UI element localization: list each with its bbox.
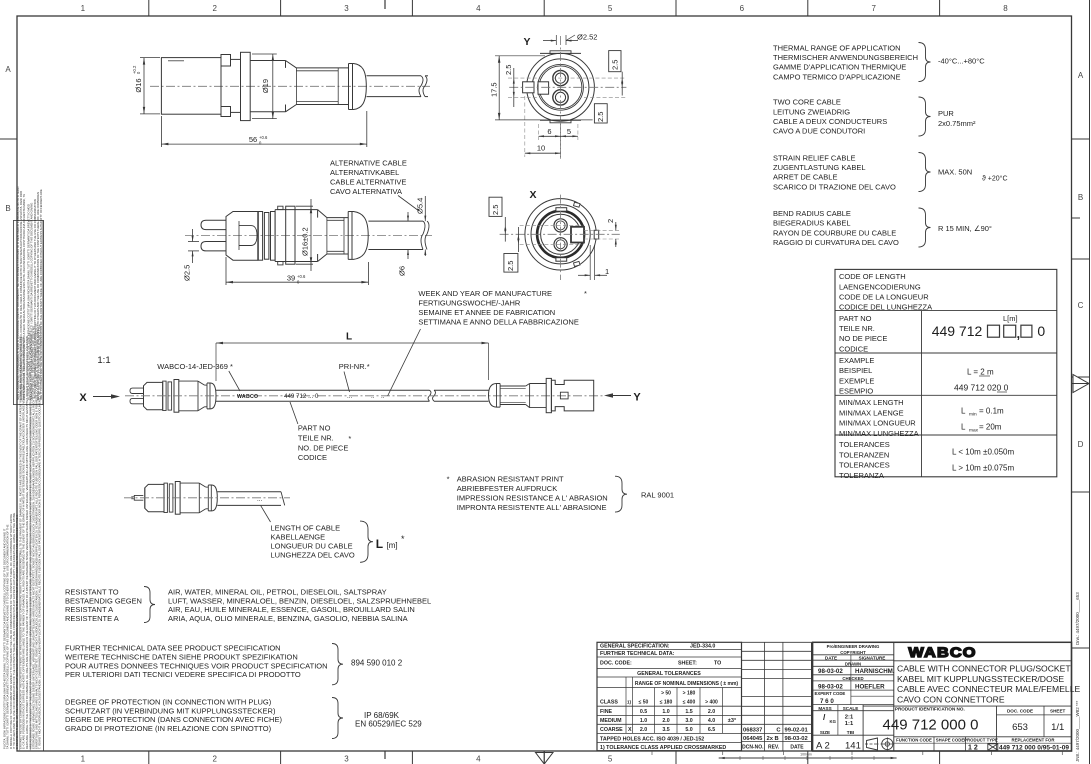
svg-text:*: * [584,289,587,298]
svg-text:STRAIN RELIEF CABLE: STRAIN RELIEF CABLE [773,153,856,162]
svg-text:ABRASION RESISTANT PRINT: ABRASION RESISTANT PRINT [457,475,564,484]
svg-text:B: B [1078,193,1083,202]
svg-text:≤ 400: ≤ 400 [683,700,696,706]
svg-text:*: * [348,434,351,443]
svg-text:RAL 9001: RAL 9001 [641,491,674,500]
svg-text:CABLE AVEC CONNECTEUR MALE/FEM: CABLE AVEC CONNECTEUR MALE/FEMELLE [897,684,1080,694]
svg-text:SCALE: SCALE [843,706,859,711]
svg-text:IMPRONTA RESISTENTE ALL' ABRAS: IMPRONTA RESISTENTE ALL' ABRASIONE [457,503,607,512]
svg-text:SEMAINE ET ANNEE DE FABRICATIO: SEMAINE ET ANNEE DE FABRICATION [418,308,555,317]
svg-text:TO: TO [714,661,721,667]
svg-text:2: 2 [212,755,217,764]
svg-text:WEITERE TECHNISCHE DATEN SIEHE: WEITERE TECHNISCHE DATEN SIEHE PRODUKT S… [65,653,298,662]
svg-text:TOLERANZEN: TOLERANZEN [839,450,889,459]
svg-text:2.5: 2.5 [611,60,620,70]
svg-text:CODICE: CODICE [298,453,327,462]
svg-text:894 590 010 2: 894 590 010 2 [351,659,403,668]
svg-text:98-03-02: 98-03-02 [818,668,843,675]
svg-text:JN8.: 4497/2000_____W82 ***: JN8.: 4497/2000_____W82 *** [1075,700,1080,762]
svg-text:Y: Y [523,36,530,48]
svg-text:2.5: 2.5 [491,205,500,215]
svg-text:C: C [1078,301,1084,310]
svg-text:LONGUEUR DU CABLE: LONGUEUR DU CABLE [271,542,353,551]
svg-text:CABLE A DEUX CONDUCTEURS: CABLE A DEUX CONDUCTEURS [773,117,887,126]
svg-text:PRODUCT TYPE: PRODUCT TYPE [964,737,998,742]
svg-text:MAX. 50N: MAX. 50N [938,168,972,177]
svg-text:TOLERANCES: TOLERANCES [839,440,890,449]
svg-text:THERMAL RANGE OF APPLICATION: THERMAL RANGE OF APPLICATION [773,43,901,52]
svg-text:≤ 50: ≤ 50 [639,700,649,706]
svg-text:= 20m: = 20m [979,423,1002,432]
svg-text:MEDIUM: MEDIUM [600,718,622,724]
svg-text:1) TOLERANCE CLASS APPLIED CRO: 1) TOLERANCE CLASS APPLIED CROSSMARKED [600,745,726,751]
svg-text:2.0: 2.0 [640,727,647,733]
svg-text:L: L [961,406,966,415]
svg-text:TEILE NR.: TEILE NR. [298,433,334,442]
svg-text:-40°C...+80°C: -40°C...+80°C [938,57,985,66]
svg-text:2.0: 2.0 [708,709,715,715]
svg-text:GRADO DI PROTEZIONE (IN RELAZI: GRADO DI PROTEZIONE (IN RELAZIONE CON SP… [65,724,272,733]
svg-text:SHAPE CODE: SHAPE CODE [936,737,965,742]
svg-text:0: 0 [1037,323,1045,339]
svg-text:RESISTENTE A: RESISTENTE A [65,614,119,623]
svg-text:8: 8 [1003,4,1008,13]
svg-text:LAENGENCODIERUNG: LAENGENCODIERUNG [839,282,921,291]
svg-text:RESISTANT A: RESISTANT A [65,605,113,614]
svg-text:*: * [447,475,450,484]
svg-text:5.0: 5.0 [685,727,692,733]
svg-text:1/1: 1/1 [1051,722,1064,733]
svg-text:98-03-02: 98-03-02 [818,683,843,690]
svg-text:1.0: 1.0 [640,718,647,724]
svg-text:Ø19: Ø19 [261,79,270,93]
svg-text:0.5: 0.5 [640,709,647,715]
svg-text:> 180: > 180 [683,691,696,697]
svg-text:ESEMPIO: ESEMPIO [839,387,873,396]
svg-text:EN 60529/IEC 529: EN 60529/IEC 529 [355,720,422,729]
svg-text:ARIA, AQUA, OLIO MINERALE, BEN: ARIA, AQUA, OLIO MINERALE, BENZINA, GASO… [168,614,408,623]
svg-text:RESISTANT TO: RESISTANT TO [65,588,119,597]
svg-text:..: .. [371,393,375,400]
svg-text:min: min [969,412,977,418]
svg-text:2:1: 2:1 [845,714,854,720]
svg-text:NO. DE PIECE: NO. DE PIECE [298,443,348,452]
svg-text:FURTHER TECHNICAL DATA SEE PRO: FURTHER TECHNICAL DATA SEE PRODUCT SPECI… [65,644,281,653]
svg-text:+0.6: +0.6 [297,274,306,279]
svg-text:RANGE OF NOMINAL DIMENSIONS (: RANGE OF NOMINAL DIMENSIONS ( ± mm) [635,681,739,687]
svg-text:CHECKED: CHECKED [842,676,863,681]
svg-text:449 712 020 0: 449 712 020 0 [954,382,1009,392]
svg-text:> 50: > 50 [661,691,671,697]
svg-text:SHEET: SHEET [1050,708,1066,713]
svg-text:SIZE: SIZE [820,730,830,735]
svg-text:MIN/MAX LONGUEUR: MIN/MAX LONGUEUR [839,419,916,428]
svg-text:449 712: 449 712 [932,323,983,339]
svg-text:2.0: 2.0 [662,718,669,724]
svg-text:SIGNATURE: SIGNATURE [859,655,886,660]
svg-text:Ø16: Ø16 [134,78,143,92]
svg-text:100mm: 100mm [800,753,812,757]
svg-text:56: 56 [249,135,257,144]
svg-text:99-02-01: 99-02-01 [785,728,809,734]
svg-text:CLASS: CLASS [600,700,618,706]
svg-text:L < 10m ±0.050m: L < 10m ±0.050m [952,448,1014,457]
svg-text:ABRIEBFESTER AUFDRUCK: ABRIEBFESTER AUFDRUCK [457,484,557,493]
svg-text:±3°: ±3° [728,718,736,724]
svg-text:THERMISCHER ANWENDUNGSBEREICH: THERMISCHER ANWENDUNGSBEREICH [773,53,918,62]
svg-text:KABELLAENGE: KABELLAENGE [271,533,326,542]
svg-text:RAYON DE COURBURE DU CABLE: RAYON DE COURBURE DU CABLE [773,228,896,237]
svg-text:ϑ +20°C: ϑ +20°C [982,174,1008,182]
svg-text:1:1: 1:1 [845,721,854,727]
svg-text:DEGREE OF PROTECTION (IN CONNE: DEGREE OF PROTECTION (IN CONNECTION WITH… [65,698,272,707]
svg-text:PUR: PUR [938,109,954,118]
svg-text:6: 6 [740,4,745,13]
svg-text:FURTHER TECHNICAL DATA:: FURTHER TECHNICAL DATA: [600,651,675,657]
svg-text:2x0.75mm²: 2x0.75mm² [938,119,976,128]
svg-text:EXPERT CODE: EXPERT CODE [815,691,846,696]
svg-text:EXEMPLE: EXEMPLE [839,376,874,385]
svg-text:PRI-NR.*: PRI-NR.* [339,362,370,371]
svg-text:PART NO: PART NO [298,424,331,433]
svg-text:REV.: REV. [768,745,780,751]
svg-text:MIN/MAX LENGTH: MIN/MAX LENGTH [839,398,904,407]
svg-text:CABLE WITH CONNECTOR PLUG/SOCK: CABLE WITH CONNECTOR PLUG/SOCKET [897,664,1071,674]
svg-text:...: ... [347,393,352,400]
svg-text:CODE OF LENGTH: CODE OF LENGTH [839,272,906,281]
svg-text:= 0.1m: = 0.1m [979,406,1004,415]
svg-text:1): 1) [627,700,632,705]
svg-text:+0.6: +0.6 [259,135,268,140]
svg-text:449 712 000 0/95-01-09: 449 712 000 0/95-01-09 [999,745,1069,752]
svg-text:2.5: 2.5 [596,112,605,122]
svg-text:1: 1 [81,4,86,13]
svg-text:BEISPIEL: BEISPIEL [839,366,872,375]
svg-text:X: X [79,392,87,404]
svg-text:L: L [961,423,966,432]
svg-text:IP 68/69K: IP 68/69K [364,711,400,720]
svg-text:2x B: 2x B [767,736,779,742]
svg-text:3: 3 [344,4,349,13]
svg-text:Ø6: Ø6 [398,266,407,276]
svg-text:MIN/MAX LUNGHEZZA: MIN/MAX LUNGHEZZA [839,429,919,438]
svg-text:A 2: A 2 [816,740,830,751]
svg-text:CAVO A DUE CONDUTORI: CAVO A DUE CONDUTORI [773,127,865,136]
svg-text:5: 5 [608,4,613,13]
svg-text:449 712 000 0: 449 712 000 0 [883,717,979,734]
svg-text:AIR, EAU, HUILE MINERALE, ESSE: AIR, EAU, HUILE MINERALE, ESSENCE, GASOI… [168,605,415,614]
svg-text:5: 5 [567,127,571,136]
svg-text:NO DE PIECE: NO DE PIECE [839,334,887,343]
svg-text:SETTIMANA E ANNO DELLA FABBRIC: SETTIMANA E ANNO DELLA FABBRICAZIONE [418,318,578,327]
svg-text:6.5: 6.5 [708,727,715,733]
svg-text:ALTERNATIVKABEL: ALTERNATIVKABEL [330,168,399,177]
svg-text:DATE: DATE [825,655,837,660]
svg-text:FERTIGUNGSWOCHE/-JAHR: FERTIGUNGSWOCHE/-JAHR [418,299,521,308]
svg-text:COPYRIGHT: COPYRIGHT [840,650,866,655]
svg-text:ZUGENTLASTUNG KABEL: ZUGENTLASTUNG KABEL [773,163,866,172]
svg-text:*: * [401,534,405,544]
svg-text:1.0: 1.0 [662,709,669,715]
svg-text:449 712 ... 0: 449 712 ... 0 [284,393,319,400]
svg-text:ARRET DE CABLE: ARRET DE CABLE [773,173,837,182]
svg-text:068337: 068337 [743,728,762,734]
svg-text:D: D [1078,440,1084,449]
svg-text:MASS: MASS [818,706,831,711]
svg-text:Ø16±0.2: Ø16±0.2 [301,227,310,256]
svg-text:DRAWN: DRAWN [845,661,861,666]
svg-text:CODE DE LA LONGUEUR: CODE DE LA LONGUEUR [839,293,929,302]
svg-text:X: X [529,189,536,201]
svg-text:GENERAL TOLERANCES: GENERAL TOLERANCES [637,671,701,677]
svg-text:[m]: [m] [387,541,398,550]
svg-text:Drw.: 4497/2000_____653: Drw.: 4497/2000_____653 [1075,592,1080,645]
svg-text:TOLERANCES: TOLERANCES [839,461,890,470]
svg-text:LUNGHEZZA DEL CAVO: LUNGHEZZA DEL CAVO [271,551,355,560]
svg-text:064045: 064045 [743,736,763,742]
svg-text:141: 141 [845,740,861,751]
svg-text:GENERAL SPECIFICATION:: GENERAL SPECIFICATION: [600,644,670,650]
svg-text:7 6 0: 7 6 0 [820,698,834,705]
svg-text:WABCO-14-JED-369 *: WABCO-14-JED-369 * [157,362,233,371]
svg-text:BESTAENDIG GEGEN: BESTAENDIG GEGEN [65,596,142,605]
svg-text:T, SOWEIT NICHT AUSDRUECKLICH: T, SOWEIT NICHT AUSDRUECKLICH ZUGESTANDE… [38,324,42,749]
svg-text:PART NO: PART NO [839,314,872,323]
svg-text:RAGGIO DI CURVATURA DEL CAVO: RAGGIO DI CURVATURA DEL CAVO [773,238,899,247]
svg-text:Pro/ENGINEER DRAWING: Pro/ENGINEER DRAWING [827,644,880,649]
svg-text:2: 2 [212,4,217,13]
svg-text:AIR, WATER, MINERAL OIL, PETRO: AIR, WATER, MINERAL OIL, PETROL, DIESELO… [168,588,387,597]
svg-text:WABCO: WABCO [908,645,976,661]
svg-text:...: ... [257,496,262,503]
svg-text:PER ULTERIORI DATI TECNICI VED: PER ULTERIORI DATI TECNICI VEDERE SPECIF… [65,670,301,679]
svg-text:KABEL MIT KUPPLUNGSSTECKER/DOS: KABEL MIT KUPPLUNGSSTECKER/DOSE [897,674,1064,684]
svg-text:4: 4 [476,4,481,13]
svg-text:PRODUCT IDENTIFICATION NO.: PRODUCT IDENTIFICATION NO. [895,706,965,711]
svg-text:DOC. CODE:: DOC. CODE: [600,661,632,667]
svg-text:REPLACEMENT FOR: REPLACEMENT FOR [1012,737,1056,742]
svg-text:2.5: 2.5 [504,65,513,75]
svg-text:SHEET:: SHEET: [678,661,697,667]
svg-text:,: , [1017,326,1021,341]
svg-text:X: X [628,727,632,733]
svg-text:Y: Y [633,392,641,404]
svg-text:L[m]: L[m] [1003,314,1018,323]
svg-text:L = 2 m: L = 2 m [967,367,994,376]
svg-text:3.0: 3.0 [685,718,692,724]
svg-text:POUR AUTRES DONNEES TECHNIQUES: POUR AUTRES DONNEES TECHNIQUES VOIR PROD… [65,661,328,670]
svg-text:LEITUNG ZWEIADRIG: LEITUNG ZWEIADRIG [773,107,850,116]
svg-text:DCN-NO.: DCN-NO. [742,745,764,751]
svg-text:max: max [969,429,979,434]
svg-text:DEGRE DE PROTECTION (DANS CONN: DEGRE DE PROTECTION (DANS CONNECTION AVE… [65,715,282,724]
svg-text:TAPPED HOLES ACC. ISO 4039 / J: TAPPED HOLES ACC. ISO 4039 / JED-152 [600,736,704,742]
svg-text:TWO CORE CABLE: TWO CORE CABLE [773,98,841,107]
svg-text:LUFT, WASSER, MINERALOEL, BENZ: LUFT, WASSER, MINERALOEL, BENZIN, DIESEL… [168,596,431,605]
svg-text:SCHUTZART (IN VERBINDUNG MIT K: SCHUTZART (IN VERBINDUNG MIT KUPPLUNGSST… [65,706,276,715]
svg-text:L: L [376,537,383,551]
svg-text:SCARICO DI TRAZIONE DEL CAVO: SCARICO DI TRAZIONE DEL CAVO [773,182,896,191]
svg-text:4.0: 4.0 [708,718,715,724]
svg-text:DOC. CODE: DOC. CODE [1007,708,1033,713]
svg-text:TOLERANZA: TOLERANZA [839,471,884,480]
svg-text:2: 2 [606,219,615,223]
svg-text:3.5: 3.5 [662,727,669,733]
svg-text:1: 1 [605,267,609,276]
svg-text:CAMPO TERMICO D'APPLICAZIONE: CAMPO TERMICO D'APPLICAZIONE [773,72,901,81]
svg-text:4: 4 [476,755,481,764]
svg-text:JED-334.0: JED-334.0 [690,644,715,650]
svg-text:A: A [5,65,11,74]
svg-text:Ø2.5: Ø2.5 [183,265,192,281]
svg-text:KG: KG [830,719,837,724]
svg-text:CAVO CON CONNETTORE: CAVO CON CONNETTORE [897,694,1005,704]
svg-text:TEILE NR.: TEILE NR. [839,324,875,333]
svg-text:CODICE DEL LUNGHEZZA: CODICE DEL LUNGHEZZA [839,303,932,312]
svg-text:CAVO ALTERNATIVA: CAVO ALTERNATIVA [330,187,402,196]
svg-text:3: 3 [344,755,349,764]
svg-text:2.5: 2.5 [506,261,515,271]
svg-text:MIN/MAX LAENGE: MIN/MAX LAENGE [839,408,904,417]
svg-text:FINE: FINE [600,709,613,715]
svg-text:L: L [346,332,352,343]
svg-text:WEEK AND YEAR OF MANUFACTURE: WEEK AND YEAR OF MANUFACTURE [418,289,552,298]
svg-text:≤ 180: ≤ 180 [660,700,673,706]
svg-text:> 400: > 400 [705,700,718,706]
svg-text:B: B [5,204,10,213]
svg-text:6: 6 [547,127,551,136]
svg-text:GAMME D'APPLICATION THERMIQUE: GAMME D'APPLICATION THERMIQUE [773,63,906,72]
svg-text:A: A [1078,71,1084,80]
svg-text:CABLE ALTERNATIVE: CABLE ALTERNATIVE [330,178,406,187]
svg-text:EXAMPLE: EXAMPLE [839,356,874,365]
svg-text:1 2: 1 2 [968,745,978,752]
svg-text:98-03-02: 98-03-02 [785,736,808,742]
svg-text:5: 5 [608,755,613,764]
svg-text:FUNCTION CODE: FUNCTION CODE [896,737,932,742]
svg-text:10: 10 [537,144,545,153]
svg-text:L > 10m ±0.075m: L > 10m ±0.075m [952,463,1014,472]
svg-text:TBI: TBI [847,730,854,735]
svg-text:R 15 MIN, ∠90°: R 15 MIN, ∠90° [938,224,992,233]
svg-text:Ø5.4: Ø5.4 [416,198,425,214]
svg-text:COARSE: COARSE [600,727,623,733]
svg-text:BEND RADIUS CABLE: BEND RADIUS CABLE [773,209,851,218]
svg-text:IMPRESSION RESISTANCE A L' ABR: IMPRESSION RESISTANCE A L' ABRASION [457,494,608,503]
svg-text:E CONTENTS THERE- OF, ARE FORB: E CONTENTS THERE- OF, ARE FORBIDDEN WITH… [15,515,19,749]
svg-text:HOEFLER: HOEFLER [855,683,885,690]
svg-text:HARNISCHM.: HARNISCHM. [855,668,895,675]
svg-text:DATE: DATE [790,745,804,751]
svg-text:CODICE: CODICE [839,344,868,353]
svg-text:LENGTH OF CABLE: LENGTH OF CABLE [271,524,341,533]
svg-text:..: .. [381,393,385,400]
svg-text:17.5: 17.5 [490,82,499,97]
svg-text:39: 39 [287,274,295,283]
svg-text:BIEGERADIUS KABEL: BIEGERADIUS KABEL [773,219,851,228]
svg-text:1.5: 1.5 [685,709,692,715]
svg-text:7: 7 [871,4,876,13]
svg-text:WABCO: WABCO [237,394,258,400]
svg-text:ALTERNATIVE CABLE: ALTERNATIVE CABLE [330,159,407,168]
svg-text:Ø2.52: Ø2.52 [577,33,597,42]
svg-text:653: 653 [1012,722,1028,733]
svg-text:1: 1 [81,755,86,764]
svg-text:1:1: 1:1 [97,355,110,366]
